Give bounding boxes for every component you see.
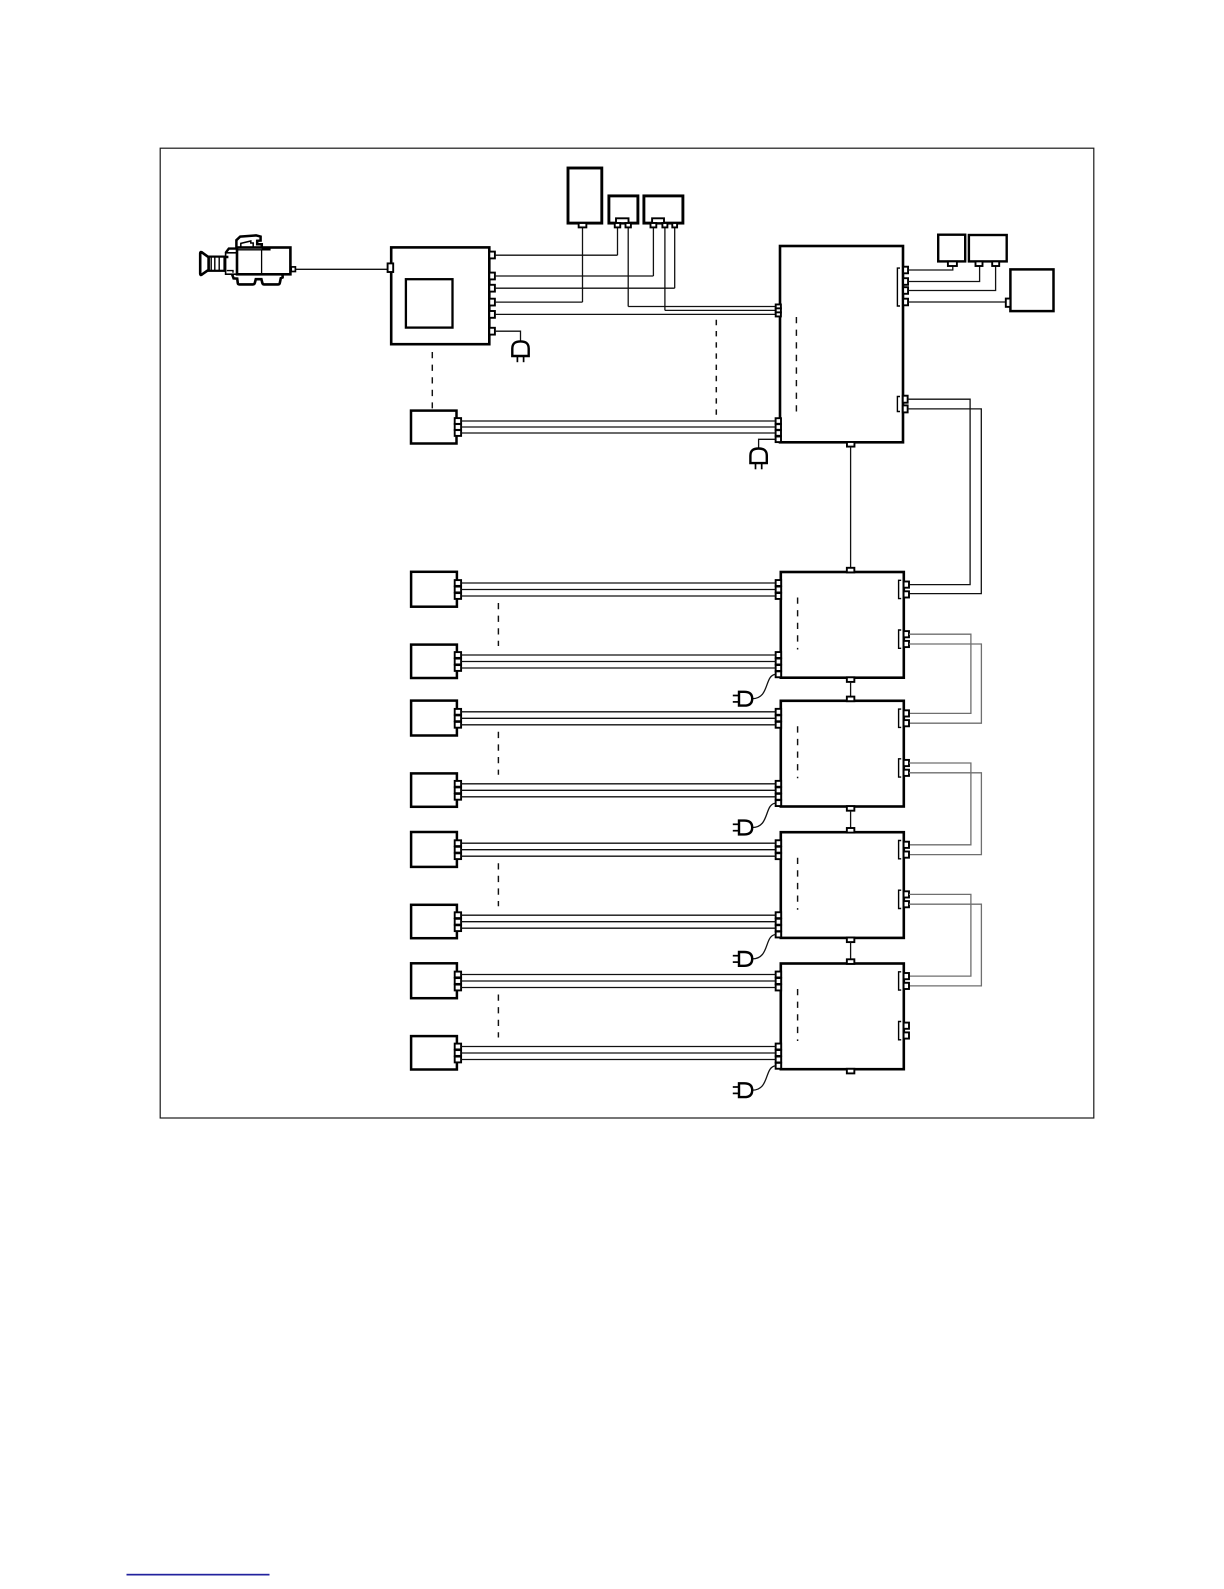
connector mic1b 1 — [455, 652, 461, 658]
bracket ext1 link out — [899, 630, 902, 648]
connector main unit out a — [903, 267, 908, 274]
connector mic4a 2 — [455, 978, 461, 984]
connector main unit out b — [903, 278, 908, 285]
bracket ext3 link out — [899, 890, 902, 908]
dashed line between mic boxes 2 — [497, 732, 499, 775]
mic box 1a — [411, 572, 457, 607]
connector main unit out d — [903, 299, 908, 306]
connector ext2 mic-in B1 — [776, 781, 782, 787]
connector adaptor out 2 — [489, 273, 495, 280]
connector ext1 mic-in A1 — [776, 580, 782, 586]
connector mic2b 2 — [455, 787, 461, 793]
connector ext3 mic-in B3 — [776, 925, 782, 931]
connector mic3b 1 — [455, 912, 461, 918]
connector ext1 top — [847, 568, 855, 573]
connector adaptor out 3 — [489, 285, 495, 292]
main communication unit — [780, 246, 903, 442]
AC adaptor plug ext4 — [739, 1083, 752, 1097]
dashed line inside extension unit 3 — [797, 858, 799, 910]
dashed line inside extension unit 4 — [797, 989, 799, 1041]
dashed line inside extension unit 2 — [797, 726, 799, 778]
wire ext2 link2 to ext3 — [909, 773, 981, 855]
wire mic4a to ext4 3 — [461, 987, 776, 989]
AC plug of main unit — [750, 449, 766, 464]
connector mic2a 3 — [455, 722, 461, 728]
connector ext1 link out 2 — [904, 641, 909, 647]
connector mic1a 3 — [455, 593, 461, 599]
bracket ext4 link in — [899, 972, 902, 990]
control box W — [411, 411, 457, 444]
extension unit 3 — [781, 832, 904, 938]
wire ext1 to AC adaptor — [752, 674, 776, 698]
wire riser monitor B left — [617, 227, 619, 255]
wire mic1a to ext1 3 — [461, 595, 776, 597]
extension unit 4 — [781, 964, 904, 1070]
connector ext1 DC in — [776, 671, 782, 677]
wire ext3 link1 to ext4 — [909, 894, 971, 976]
wire main unit to unit S3 — [908, 301, 1006, 303]
bracket main unit link out — [897, 397, 900, 412]
wire mic3b to ext3 3 — [461, 927, 776, 929]
connector ext2 DC in — [776, 800, 782, 806]
bracket ext2 link out — [899, 759, 902, 777]
connector main unit ctrl in 1 — [776, 418, 781, 424]
dashed line between mic boxes 3 — [497, 863, 499, 906]
connector mic2b 1 — [455, 781, 461, 787]
wire mic4a to ext4 1 — [461, 974, 776, 976]
connector monitor C 2 — [662, 223, 667, 227]
connector ext2 link out 2 — [904, 770, 909, 776]
wire ext2 link1 to ext3 — [909, 763, 971, 845]
connector ext4 link out 1 — [904, 1023, 909, 1029]
diagram frame — [160, 148, 1094, 1118]
wire ext2 to ext3 cascade — [850, 811, 852, 828]
connector monitor B left — [615, 223, 621, 227]
wire adaptor to AC plug — [495, 331, 521, 341]
wire mic2b to ext2 2 — [461, 789, 776, 791]
connector ext2 bottom — [847, 806, 855, 811]
connector mic1b 3 — [455, 665, 461, 671]
connector ext4 mic-in B1 — [776, 1044, 782, 1050]
wire main unit down to extension unit 1 — [850, 447, 852, 568]
connector ext1 mic-in B3 — [776, 665, 782, 671]
connector ext2 link in 1 — [904, 710, 909, 716]
wire adaptor out2 to monitor C — [495, 275, 654, 277]
bracket ext3 link in — [899, 841, 902, 859]
wire mic1b to ext1 1 — [461, 654, 776, 656]
connector mic1a 2 — [455, 587, 461, 593]
connector ext2 top — [847, 697, 855, 702]
wire mic4b to ext4 3 — [461, 1059, 776, 1061]
wire riser monitor A — [582, 227, 584, 302]
connector W 3 — [455, 430, 461, 436]
wire main unit link2 to ext unit 1 — [908, 409, 982, 594]
connector mic2b 3 — [455, 794, 461, 800]
monitor A tall — [568, 168, 602, 223]
mic box 1b — [411, 645, 457, 678]
bracket ext4 link out — [899, 1022, 902, 1040]
wire mic2a to ext2 1 — [461, 711, 776, 713]
connector mic3a 2 — [455, 847, 461, 853]
connector ext3 link out 2 — [904, 901, 909, 907]
connector ext4 mic-in B3 — [776, 1057, 782, 1063]
wire mic2b to ext2 3 — [461, 796, 776, 798]
wire main unit to unit S2 right — [908, 266, 996, 291]
connector ext4 mic-in A1 — [776, 972, 782, 978]
connector ext2 mic-in B2 — [776, 787, 782, 793]
connector ext4 link out 2 — [904, 1032, 909, 1038]
unit S3 — [1010, 269, 1053, 311]
connector W 1 — [455, 418, 461, 424]
extension unit 1 — [781, 572, 904, 678]
wire ext3 to ext4 cascade — [850, 942, 852, 959]
connector ext3 mic-in B1 — [776, 912, 782, 918]
dashed line mid frame — [715, 320, 717, 416]
wire ext1 link1 to ext2 — [909, 634, 971, 713]
wire ext1 to ext2 cascade — [850, 682, 852, 697]
connector mic2a 2 — [455, 715, 461, 721]
mic box 2b — [411, 773, 457, 806]
connector ext3 link in 1 — [904, 842, 909, 848]
wire main unit to speaker S1 — [908, 266, 953, 270]
connector ext3 link out 1 — [904, 891, 909, 897]
connector ext4 link in 2 — [904, 983, 909, 989]
connector mic1b 2 — [455, 659, 461, 665]
connector mic4a 3 — [455, 985, 461, 991]
wire mic1a to ext1 2 — [461, 589, 776, 591]
connector ext1 mic-in A2 — [776, 587, 782, 593]
mic box 4b — [411, 1036, 457, 1069]
connector ext4 bottom — [847, 1069, 855, 1074]
connector ext3 bottom — [847, 938, 855, 943]
dashed line between mic boxes 4 — [497, 995, 499, 1038]
AC plug of camera adaptor — [512, 341, 528, 356]
connector ext4 mic-in A2 — [776, 978, 782, 984]
connector mic4b 2 — [455, 1050, 461, 1056]
connector camera input on adaptor — [388, 263, 394, 272]
dashed line below camera adaptor — [431, 352, 433, 408]
connector ext2 mic-in A3 — [776, 722, 782, 728]
wire riser monitor C conn2 — [664, 227, 666, 310]
connector ext3 DC in — [776, 932, 782, 938]
dashed line inside extension unit 1 — [797, 598, 799, 650]
connector ext4 mic-in B2 — [776, 1050, 782, 1056]
video camera — [200, 235, 295, 284]
connector ext4 DC in — [776, 1063, 782, 1069]
dashed line between mic boxes 1 — [497, 603, 499, 646]
connector S1 bottom — [948, 261, 957, 266]
connector main unit ctrl in 3 — [776, 430, 781, 436]
wire mic3a to ext3 2 — [461, 849, 776, 851]
connector mic4b 1 — [455, 1044, 461, 1050]
connector ext2 link out 1 — [904, 760, 909, 766]
wire monitor C to main unit — [665, 309, 776, 311]
connector mic2a 1 — [455, 709, 461, 715]
wire mic4b to ext4 2 — [461, 1052, 776, 1054]
camera adaptor inner panel — [406, 279, 453, 327]
connector main unit out c — [903, 287, 908, 294]
monitor C stand notch — [652, 218, 664, 223]
wire mic3b to ext3 2 — [461, 921, 776, 923]
wire ext3 to AC adaptor — [752, 935, 776, 959]
connector main unit ctrl in 2 — [776, 424, 781, 430]
connector main unit video in 1 — [776, 304, 781, 308]
connector adaptor out 5 — [489, 311, 495, 318]
connector adaptor out 1 — [489, 252, 495, 259]
connector mic3b 3 — [455, 925, 461, 931]
wire mic3a to ext3 1 — [461, 842, 776, 844]
connector main unit DC in — [776, 437, 781, 443]
wire ext2 to AC adaptor — [752, 803, 776, 827]
connector adaptor out 4 — [489, 299, 495, 306]
wire W to main unit 3 — [461, 432, 776, 434]
blue footer line — [127, 1574, 270, 1576]
connector ext4 link in 1 — [904, 973, 909, 979]
connector ext2 mic-in A2 — [776, 715, 782, 721]
wire mic2b to ext2 1 — [461, 783, 776, 785]
wire mic4b to ext4 1 — [461, 1046, 776, 1048]
connector monitor C 1 — [651, 223, 657, 227]
wire main unit link1 to ext unit 1 — [908, 399, 970, 584]
connector W 2 — [455, 424, 461, 430]
wire mic3a to ext3 3 — [461, 855, 776, 857]
connector ext2 mic-in A1 — [776, 709, 782, 715]
wire main unit to AC plug — [759, 439, 776, 448]
connector ext3 mic-in B2 — [776, 919, 782, 925]
dashed line inside main unit — [795, 317, 797, 412]
mic box 3a — [411, 832, 457, 867]
connector ext3 mic-in A3 — [776, 853, 782, 859]
connector mic3a 3 — [455, 853, 461, 859]
AC adaptor plug ext1 — [739, 692, 752, 706]
connector ext3 mic-in A2 — [776, 847, 782, 853]
wire camera to camera adaptor — [295, 268, 387, 270]
wire mic1b to ext1 2 — [461, 661, 776, 663]
wire ext3 link2 to ext4 — [909, 904, 981, 986]
wire riser monitor B right — [627, 227, 629, 306]
connector main unit link out 2 — [903, 405, 908, 412]
wire mic2a to ext2 3 — [461, 724, 776, 726]
connector adaptor AC in — [489, 328, 495, 335]
unit S1 — [938, 235, 965, 262]
wire mic2a to ext2 2 — [461, 717, 776, 719]
connector monitor B right — [626, 223, 631, 227]
connector monitor A bottom — [579, 223, 587, 227]
connector main unit video in 2 — [776, 308, 781, 312]
camera adaptor unit — [391, 247, 489, 344]
connector ext2 mic-in B3 — [776, 794, 782, 800]
monitor B — [609, 196, 638, 223]
connector S3 left — [1006, 299, 1011, 307]
connector mic1a 1 — [455, 580, 461, 586]
wire riser monitor C conn1 — [652, 227, 654, 276]
connector ext4 top — [847, 959, 855, 964]
connector ext1 link in 2 — [904, 591, 909, 597]
AC adaptor plug ext2 — [739, 821, 752, 835]
connector ext1 bottom — [847, 677, 855, 682]
wire W to main unit 2 — [461, 426, 776, 428]
wire mic4a to ext4 2 — [461, 980, 776, 982]
wire adaptor out4 to monitor A — [495, 301, 583, 303]
bracket main unit monitor outputs — [897, 268, 900, 306]
connector main unit link out 1 — [903, 396, 908, 403]
monitor B stand notch — [616, 218, 629, 223]
connector ext3 link in 2 — [904, 852, 909, 858]
extension unit 2 — [781, 701, 904, 807]
connector ext4 mic-in A3 — [776, 985, 782, 991]
wire adaptor out3 to monitor C — [495, 287, 675, 289]
wire main unit to unit S2 left — [908, 266, 980, 282]
bracket ext1 link in — [899, 580, 902, 598]
connector ext1 link in 1 — [904, 582, 909, 588]
connector ext1 mic-in B1 — [776, 652, 782, 658]
wire mic3b to ext3 1 — [461, 914, 776, 916]
connector ext3 mic-in A1 — [776, 840, 782, 846]
monitor C — [644, 196, 683, 223]
connector mic4b 3 — [455, 1057, 461, 1063]
connector ext1 mic-in A3 — [776, 593, 782, 599]
wire adaptor out1 to monitor B — [495, 254, 618, 256]
wire monitor B to main unit — [628, 306, 775, 308]
connector S2 left — [976, 261, 983, 266]
wire mic1a to ext1 1 — [461, 582, 776, 584]
connector main unit video in 3 — [776, 312, 781, 316]
connector S2 right — [992, 261, 999, 266]
mic box 2a — [411, 701, 457, 736]
bracket ext2 link in — [899, 709, 902, 727]
connector mic3b 2 — [455, 919, 461, 925]
wire riser monitor C conn3 — [674, 227, 676, 288]
connector ext3 top — [847, 828, 855, 833]
mic box 3b — [411, 905, 457, 938]
mic box 4a — [411, 963, 457, 998]
wire mic1b to ext1 3 — [461, 667, 776, 669]
wire W to main unit 1 — [461, 420, 776, 422]
connector main unit bottom — [847, 442, 855, 447]
connector mic4a 1 — [455, 972, 461, 978]
connector ext2 link in 2 — [904, 720, 909, 726]
wire adaptor out5 to main unit — [495, 313, 776, 315]
connector ext1 mic-in B2 — [776, 659, 782, 665]
AC adaptor plug ext3 — [739, 952, 752, 966]
wire ext4 to AC adaptor — [752, 1066, 776, 1090]
connector monitor C 3 — [672, 223, 677, 227]
connector mic3a 1 — [455, 840, 461, 846]
unit S2 — [969, 235, 1007, 261]
wire ext1 link2 to ext2 — [909, 644, 981, 723]
connector ext1 link out 1 — [904, 631, 909, 637]
